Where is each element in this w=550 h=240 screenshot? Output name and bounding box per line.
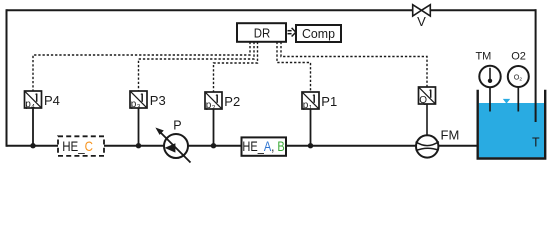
signal line DR to P1 <box>277 42 311 92</box>
level indicator triangle <box>503 99 510 104</box>
svg-text:HE_C: HE_C <box>62 138 93 154</box>
svg-text:Comp: Comp <box>302 26 335 41</box>
box Comp <box>296 25 341 42</box>
stem P1 <box>310 109 312 146</box>
heat exchanger HE_A,B <box>242 137 287 155</box>
tank T walls <box>478 90 546 159</box>
signal line DR to P3 <box>139 42 255 91</box>
svg-text:FM: FM <box>441 128 460 143</box>
svg-text:P1: P1 <box>321 94 337 109</box>
stem P2 <box>213 109 215 146</box>
wire top pipe right segment <box>431 9 537 11</box>
junction dot P4 <box>30 143 35 148</box>
wire bottom pipe segment 1 <box>7 145 60 147</box>
junction dot P3 <box>136 143 141 148</box>
wire bottom pipe segment 2 <box>103 145 164 147</box>
stem Q to FM <box>426 104 428 136</box>
valve V <box>413 5 431 29</box>
stem P3 <box>138 108 140 146</box>
svg-text:HE_A, B: HE_A, B <box>242 138 284 154</box>
pressure sensor P2 <box>205 92 240 111</box>
junction dot P1 <box>308 143 313 148</box>
stem P4 <box>32 108 34 146</box>
pressure sensor P1 <box>302 92 337 111</box>
pressure sensor P4 <box>25 91 60 110</box>
svg-text:O2: O2 <box>511 50 526 62</box>
oxygen sensor O2 <box>508 50 529 111</box>
tank liquid <box>479 103 544 157</box>
svg-text:P3: P3 <box>150 93 166 108</box>
flow meter FM <box>416 128 460 158</box>
svg-text:P4: P4 <box>44 93 60 108</box>
wire right internal pipe <box>535 9 537 122</box>
heat exchanger HE_C (dashed) <box>58 136 104 156</box>
svg-text:P2: P2 <box>224 94 240 109</box>
wire bottom pipe segment 4 <box>285 145 418 147</box>
svg-text:P: P <box>173 119 181 133</box>
wire bottom pipe segment 5 <box>437 145 479 147</box>
arrow DR to Comp <box>288 28 296 37</box>
thermometer TM <box>475 50 500 111</box>
box DR <box>237 23 286 42</box>
svg-text:T: T <box>532 136 540 150</box>
junction dot P2 <box>211 143 216 148</box>
signal line DR to P2 <box>214 42 258 92</box>
pump P <box>155 119 190 163</box>
signal line DR to P4 <box>33 42 250 91</box>
wire bottom pipe segment 3 <box>189 145 243 147</box>
svg-text:DR: DR <box>254 26 271 41</box>
svg-text:Q: Q <box>419 95 427 106</box>
wire left vertical pipe <box>6 9 8 146</box>
wire top pipe left segment <box>7 9 414 11</box>
flow sensor Q <box>419 87 436 106</box>
pressure sensor P3 <box>130 91 166 110</box>
signal line DR to flow sensor Q <box>281 42 427 87</box>
svg-text:TM: TM <box>475 50 491 62</box>
svg-text:V: V <box>417 14 426 29</box>
